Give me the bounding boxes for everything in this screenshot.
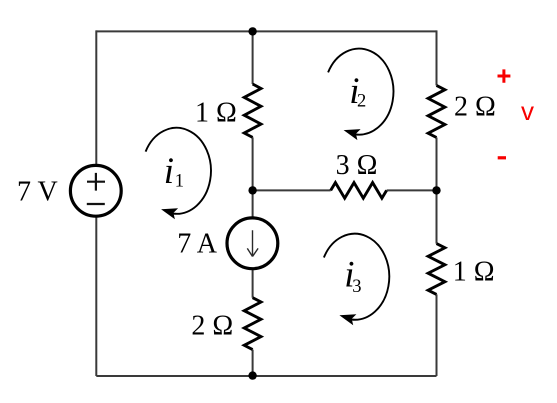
wire top rail right segment (node A to top-right corner) xyxy=(253,30,437,32)
node B (middle-left junction) xyxy=(248,186,256,194)
wire right branch middle (resistor R2 to node C to resistor R5) xyxy=(436,138,438,244)
resistor R1 1-ohm (top middle branch) xyxy=(244,84,261,137)
svg-text:2 Ω: 2 Ω xyxy=(454,91,496,122)
node D (bottom middle junction) xyxy=(248,371,256,379)
resistor R4 2-ohm (bottom middle branch) xyxy=(244,298,261,350)
svg-text:1 Ω: 1 Ω xyxy=(453,256,495,287)
node C (middle-right junction) xyxy=(432,186,440,194)
voltage label v (red) xyxy=(521,96,534,126)
voltage source V1 7V (circle with plus and minus) xyxy=(70,165,121,216)
value label 2 ohm for R4 xyxy=(191,311,233,342)
polarity label minus (red) xyxy=(498,156,506,159)
polarity label plus (red) xyxy=(498,69,511,82)
svg-text:7 V: 7 V xyxy=(17,176,58,207)
value label 1 ohm for R1 xyxy=(195,98,237,129)
wire right branch lower (resistor R5 to bottom-right corner) xyxy=(436,294,438,376)
svg-text:3 Ω: 3 Ω xyxy=(336,150,378,181)
wire top rail left segment (node A to top-left corner) xyxy=(96,30,252,32)
value label 2 ohm for R2 xyxy=(454,91,496,122)
wire node B to resistor R3 xyxy=(253,189,331,191)
mesh current label i2 xyxy=(349,71,366,112)
mesh current label i3 xyxy=(344,255,361,297)
value label 3 ohm for R3 xyxy=(336,150,378,181)
wire middle branch (current source bottom to resistor R4) xyxy=(252,269,254,298)
value label 7 A for current source xyxy=(177,229,217,260)
svg-text:1 Ω: 1 Ω xyxy=(195,98,237,129)
mesh current label i1 xyxy=(164,151,184,192)
mesh current loop arrow i1 xyxy=(146,128,211,219)
svg-text:7 A: 7 A xyxy=(177,229,217,260)
wire right branch upper (top-right corner to resistor R2) xyxy=(436,30,438,85)
wire left branch upper (top-left corner to voltage source top) xyxy=(95,30,97,165)
svg-text:3: 3 xyxy=(352,277,361,297)
current source I1 7A (circle with downward arrow) xyxy=(227,218,278,269)
svg-text:v: v xyxy=(521,96,534,126)
value label 1 ohm for R5 xyxy=(453,256,495,287)
svg-text:2 Ω: 2 Ω xyxy=(191,311,233,342)
resistor R2 2-ohm (top right branch) xyxy=(428,85,445,137)
wire left branch lower (voltage source bottom to bottom-left corner) xyxy=(95,217,97,376)
resistor R3 3-ohm (middle horizontal branch) xyxy=(331,183,387,199)
svg-text:1: 1 xyxy=(175,172,184,192)
node A (top middle junction) xyxy=(248,27,256,35)
resistor R5 1-ohm (bottom right branch) xyxy=(428,244,445,295)
wire middle branch upper (node A to resistor R1) xyxy=(252,31,254,84)
wire resistor R3 to node C xyxy=(387,189,437,191)
svg-text:2: 2 xyxy=(357,91,366,111)
svg-text:i: i xyxy=(164,151,174,192)
value label 7 V for voltage source xyxy=(17,176,58,207)
wire bottom rail xyxy=(96,375,436,377)
wire middle branch lower (resistor R4 to node D) xyxy=(252,350,254,376)
mesh current loop arrow i2 xyxy=(328,49,393,140)
mesh current loop arrow i3 xyxy=(324,234,389,325)
wire middle branch (resistor R1 to node B and current source top) xyxy=(252,137,254,218)
